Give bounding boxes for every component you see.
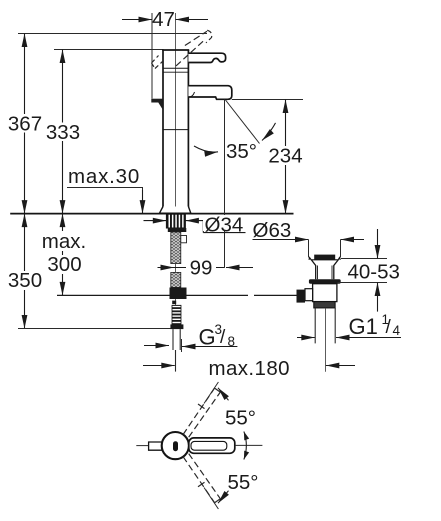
rod end knob xyxy=(297,290,306,303)
40-53 bottom arrow xyxy=(377,283,379,312)
Ø34 text xyxy=(203,215,245,231)
pop-up rod line xyxy=(57,294,248,296)
faucet top cap xyxy=(162,49,189,51)
drain locknut xyxy=(314,302,335,308)
svg-text:55°: 55° xyxy=(228,471,259,494)
drain seal ring xyxy=(309,279,341,284)
dashed lever 55 up line B xyxy=(189,392,221,437)
lower supply hose xyxy=(171,272,181,287)
dashed lever rear end xyxy=(152,56,163,69)
svg-text:47: 47 xyxy=(152,8,175,31)
40-53 top arrow xyxy=(377,229,379,259)
svg-text:/: / xyxy=(220,327,226,348)
35 arc right arrow xyxy=(262,123,276,141)
dashed lever 55 down line B xyxy=(189,454,221,499)
Ø34 underline xyxy=(203,232,245,234)
dimension line max.300 xyxy=(62,214,64,296)
top view lever inner xyxy=(191,441,227,450)
35 arc left arrow xyxy=(194,146,218,152)
dashed lever 55 down line A xyxy=(183,457,215,503)
top view left stub xyxy=(149,442,162,450)
Ø34 dimension left arrow xyxy=(144,220,167,222)
drain body xyxy=(313,284,337,302)
drain neck inner walls xyxy=(318,266,333,280)
faucet centerline xyxy=(175,13,177,329)
Ø63 underline leader arrow xyxy=(253,239,309,241)
threaded shank below deck xyxy=(166,214,185,228)
drain centerline xyxy=(325,308,327,372)
333 top extension line xyxy=(54,49,164,51)
max.30 leader arrow xyxy=(142,190,144,214)
234 text xyxy=(266,146,306,165)
G3/8 left arrow xyxy=(144,345,169,347)
rotation arc xyxy=(244,432,246,460)
G3/8 underline dimension line xyxy=(182,346,237,348)
dimension line 234 xyxy=(285,100,287,214)
svg-text:4: 4 xyxy=(393,323,401,338)
40-53 bottom extension line xyxy=(338,282,388,284)
top view lever slot xyxy=(173,441,178,451)
rear wedge step xyxy=(151,99,162,103)
drain lever boss xyxy=(305,289,313,301)
svg-text:234: 234 xyxy=(268,145,302,168)
svg-text:300: 300 xyxy=(47,253,81,276)
dimension line 367 xyxy=(24,34,26,214)
aerator level extension line xyxy=(232,99,303,101)
367 top extension line xyxy=(18,33,207,35)
max.180 dimension left arrow xyxy=(143,365,175,367)
spout outlet extension line xyxy=(224,100,226,268)
base flare xyxy=(160,207,191,214)
drain neck taper xyxy=(311,260,338,279)
max.30 leader underline xyxy=(67,188,143,199)
35 degree stream line xyxy=(226,100,260,144)
55 down leader arrow xyxy=(204,488,218,510)
svg-text:350: 350 xyxy=(8,269,42,292)
spout xyxy=(188,86,231,100)
350 bottom level line xyxy=(18,328,171,330)
svg-text:99: 99 xyxy=(190,257,213,280)
upper supply hose xyxy=(171,232,181,264)
dashed raised lever lower line xyxy=(176,39,205,66)
cartridge joint line xyxy=(163,67,188,69)
svg-text:G1: G1 xyxy=(349,314,378,339)
Ø63 right extension line xyxy=(340,240,342,258)
Ø63 left extension line xyxy=(308,240,310,258)
dashed lever 55 up cross dash xyxy=(198,404,205,409)
dimension 47 left arrow xyxy=(122,19,152,21)
lever handle xyxy=(188,53,225,62)
spout-body fillet xyxy=(188,92,194,97)
supply pipe end xyxy=(173,329,180,350)
dashed raised lever upper line xyxy=(185,31,207,45)
367 text xyxy=(8,114,43,133)
mounting nut bar xyxy=(168,228,187,232)
99 dimension right arrow xyxy=(226,267,253,269)
deck line xyxy=(10,213,293,215)
99 text xyxy=(186,257,216,277)
55 up leader arrow xyxy=(204,382,218,404)
drain flange rim xyxy=(309,258,340,260)
rod connector block xyxy=(170,288,187,300)
99 dimension left arrow xyxy=(158,267,175,269)
svg-text:max.30: max.30 xyxy=(68,165,140,188)
svg-text:Ø63: Ø63 xyxy=(253,219,292,242)
svg-text:367: 367 xyxy=(8,113,42,136)
drain tailpipe xyxy=(315,308,335,344)
G3/8 extension line xyxy=(181,339,183,352)
svg-text:55°: 55° xyxy=(225,407,256,430)
dashed raised lever tip cap xyxy=(206,30,212,43)
dashed lever 55 down tip cap xyxy=(215,499,221,503)
dashed lever 55 up tip cap xyxy=(215,388,221,392)
svg-text:40-53: 40-53 xyxy=(348,261,400,284)
top view left centerline xyxy=(136,445,148,447)
svg-text:333: 333 xyxy=(46,121,80,144)
G3/8 nut xyxy=(170,324,183,329)
350 text xyxy=(7,271,44,290)
dimension line 333 xyxy=(62,50,64,214)
Ø63 right arrow xyxy=(341,239,365,241)
threaded stub xyxy=(172,305,181,324)
99 dimension line xyxy=(174,267,225,269)
top view right centerline xyxy=(235,444,263,446)
max.180 dimension right arrow xyxy=(326,365,355,367)
333 text xyxy=(45,123,82,142)
Ø34 dimension right arrow + leader xyxy=(185,221,203,233)
hose side tab xyxy=(181,236,187,243)
dimension 47 right arrow xyxy=(176,19,209,21)
body joint line xyxy=(163,129,188,131)
max. text xyxy=(40,231,89,251)
drain plug cap xyxy=(314,255,335,260)
dimension 47 left extension line xyxy=(151,13,153,99)
top view circle xyxy=(162,432,189,459)
dashed lever 55 up line A xyxy=(183,388,215,434)
top view lever outer xyxy=(189,438,235,453)
svg-text:/: / xyxy=(386,317,392,338)
300 text xyxy=(46,255,84,274)
svg-text:35°: 35° xyxy=(226,140,257,163)
G1 1/4 underline dimension line xyxy=(336,337,401,339)
small joint dot xyxy=(172,301,176,305)
svg-text:max.: max. xyxy=(42,230,86,253)
svg-text:G: G xyxy=(199,325,216,350)
G1 1/4 left arrow xyxy=(297,337,315,339)
40-53 top extension line xyxy=(341,258,387,260)
faucet body column xyxy=(163,50,188,208)
svg-text:max.180: max.180 xyxy=(209,357,290,380)
dimension line 350 xyxy=(24,214,26,329)
dashed lever 55 down cross dash xyxy=(198,482,205,487)
